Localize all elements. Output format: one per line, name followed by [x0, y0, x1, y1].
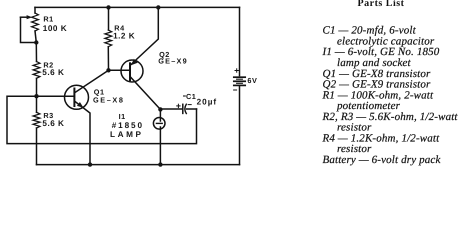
wire bottom rail	[37, 164, 240, 166]
lamp filament dash	[156, 122, 162, 124]
wire R1 bottom lead	[35, 31, 36, 43]
junction lamp at bottom rail	[158, 162, 162, 166]
svg-text:20µf: 20µf	[197, 98, 218, 107]
resistor R3 zigzag 5.6K	[33, 112, 40, 128]
svg-text:LAMP: LAMP	[110, 130, 144, 139]
svg-text:GE–X9: GE–X9	[158, 57, 188, 66]
wire right rail battery to bottom	[239, 87, 241, 165]
wire capacitor to corner	[187, 108, 197, 110]
label Q1	[93, 88, 125, 105]
transistor Q2 circle GE-X9	[121, 60, 143, 82]
Q2 base bar	[129, 63, 131, 80]
Q2 emitter arrowhead	[131, 59, 138, 65]
battery plus mark	[235, 69, 238, 72]
label R2	[42, 61, 64, 78]
parts list text	[322, 25, 459, 166]
Q1 collector lead	[75, 70, 109, 92]
resistor R4 top lead	[108, 7, 110, 30]
label R1	[43, 15, 67, 33]
capacitor C1 positive plate	[182, 104, 184, 113]
junction R4 / Q1 collector / Q2 base	[106, 68, 110, 72]
junction Q1 base node	[34, 94, 38, 98]
svg-text:6V: 6V	[247, 76, 257, 85]
wire R4 bottom lead	[107, 47, 109, 71]
wire R2 bottom to base node	[36, 78, 38, 96]
wire lamp to bottom rail	[159, 127, 161, 165]
resistor R1 zigzag 100K	[32, 13, 39, 31]
capacitor plus sign	[177, 104, 180, 107]
wire feedback loop (base node to capacitor negative)	[7, 96, 197, 143]
capacitor C1 curved negative plate	[185, 104, 186, 113]
wire lamp node to lamp	[159, 109, 161, 121]
resistor R1 top lead	[34, 7, 36, 13]
lamp I1 circle	[153, 118, 165, 130]
junction R1 bottom node	[34, 40, 38, 44]
junction Q2 at top rail	[156, 5, 160, 9]
capacitor minus sign	[188, 104, 191, 106]
junction R4 top	[106, 5, 110, 9]
svg-text:#1850: #1850	[112, 121, 144, 130]
svg-text:R1: R1	[43, 15, 53, 24]
svg-text:C1: C1	[186, 92, 196, 101]
wire R1 wiper loop	[21, 17, 37, 42]
wire right rail upper to battery	[239, 7, 241, 75]
wire R3 bottom to bottom rail	[36, 128, 38, 165]
label R4	[113, 24, 135, 41]
svg-text:GE–X8: GE–X8	[93, 96, 125, 105]
R1 wiper arrowhead	[27, 15, 33, 19]
svg-text:Battery — 6-volt dry pack: Battery — 6-volt dry pack	[323, 154, 442, 166]
label C1 tick	[183, 95, 186, 97]
Q1 emitter arrowhead	[77, 102, 84, 108]
resistor R4 zigzag 1.2K	[105, 30, 112, 47]
Q1 base bar	[73, 89, 75, 107]
Q1 emitter lead	[75, 102, 90, 165]
wire R1 node to R2	[35, 43, 37, 62]
svg-text:Parts List: Parts List	[358, 0, 405, 9]
wire lamp node to capacitor	[160, 108, 181, 110]
label I1 lamp	[110, 112, 144, 139]
svg-text:5.6 K: 5.6 K	[42, 68, 64, 77]
Q2 collector lead to lamp node	[131, 77, 161, 109]
Q2 emitter lead to top rail	[131, 7, 159, 65]
svg-text:5.6 K: 5.6 K	[42, 119, 64, 128]
label R3	[42, 111, 64, 128]
svg-text:I1: I1	[119, 112, 126, 121]
wire base node to R3	[36, 96, 38, 112]
resistor R2 zigzag 5.6K	[33, 62, 40, 79]
wire top rail	[35, 6, 240, 8]
wire base node to Q1 base	[37, 95, 75, 97]
transistor Q1 circle GE-X8	[65, 85, 89, 109]
svg-text:100 K: 100 K	[43, 24, 67, 33]
wire node to Q2 base	[109, 69, 130, 71]
junction Q1 emitter at bottom rail	[88, 162, 92, 166]
label Q2	[158, 50, 188, 66]
battery minus mark	[234, 89, 237, 91]
R1 wiper arrow line	[21, 16, 28, 18]
label C1	[186, 92, 217, 107]
svg-text:1.2 K: 1.2 K	[113, 31, 135, 40]
battery B1 6-volt	[234, 77, 245, 85]
junction lamp node	[158, 107, 162, 111]
